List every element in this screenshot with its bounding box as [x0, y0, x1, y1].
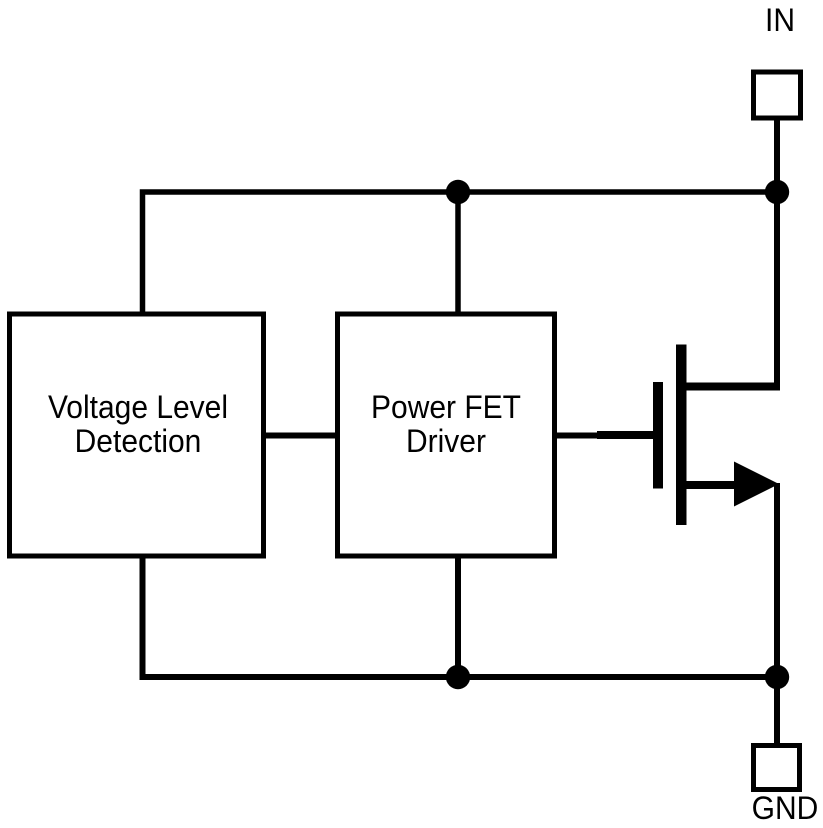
svg-text:IN: IN: [765, 2, 795, 38]
svg-text:Detection: Detection: [75, 423, 202, 459]
svg-text:GND: GND: [752, 790, 819, 826]
svg-text:Voltage Level: Voltage Level: [48, 389, 228, 425]
svg-text:Driver: Driver: [406, 423, 486, 459]
svg-text:Power FET: Power FET: [371, 389, 521, 425]
